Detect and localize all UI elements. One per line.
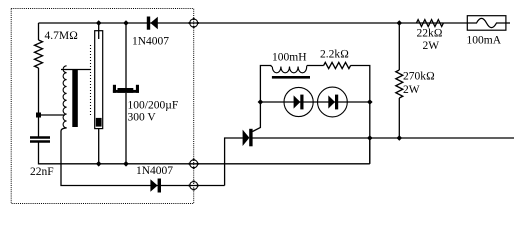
thyristor SCR anode-cathode — [243, 129, 253, 147]
node tube-lead rail — [96, 161, 102, 167]
svg-text:22kΩ: 22kΩ — [417, 27, 443, 39]
fuse F1 element — [467, 18, 506, 27]
svg-text:100mH: 100mH — [272, 52, 307, 64]
diode D1 1N4007 top — [147, 17, 158, 30]
inductor L1 100mH — [271, 66, 306, 73]
wire 270k bottom riser — [398, 98, 400, 138]
node cap-lead rail — [123, 161, 129, 167]
wire top-right output stub — [506, 22, 510, 24]
svg-text:22nF: 22nF — [30, 166, 54, 178]
wire diac row — [260, 101, 369, 103]
wire transformer tap — [39, 114, 65, 116]
thyristor SCR gate lead — [253, 102, 261, 132]
terminal bottom — [189, 180, 199, 190]
node 270k top — [397, 20, 403, 26]
node 270k bottom — [397, 135, 403, 141]
flash tube bottom electrode — [96, 118, 102, 127]
svg-text:300 V: 300 V — [128, 112, 157, 124]
flash tube top electrode lead — [98, 23, 100, 39]
resistor R1 4.7MOhm — [35, 40, 43, 68]
wire trigger feed — [61, 69, 91, 71]
node junction square — [36, 113, 41, 118]
wire coil bottom lead — [61, 128, 225, 186]
node output riser — [367, 135, 373, 141]
resistor R4 22kOhm — [416, 20, 443, 27]
enclosure dashed box — [11, 9, 194, 204]
wire SCR output — [253, 137, 515, 139]
capacitor C1 22nF — [30, 136, 50, 138]
wire electrolytic bottom lead — [125, 93, 127, 164]
wire 4.7M bottom lead — [38, 68, 40, 137]
diac diode 2 — [328, 95, 338, 110]
svg-text:4.7MΩ: 4.7MΩ — [45, 30, 79, 42]
diode D2 1N4007 bottom — [150, 179, 161, 193]
inductor L1 core bar — [272, 76, 310, 79]
wire inner network left/top — [260, 66, 271, 103]
svg-text:270kΩ: 270kΩ — [403, 71, 435, 83]
terminal mid — [189, 159, 199, 169]
capacitor C2 100/200uF electrolytic — [113, 85, 139, 93]
wire electrolytic top lead — [125, 23, 127, 88]
resistor R3 270kOhm — [396, 70, 403, 98]
wire between L1 and R2 — [307, 65, 324, 67]
svg-text:100/200µF: 100/200µF — [128, 100, 179, 112]
flash tube trigger electrode (dotted) — [90, 45, 92, 117]
svg-text:2W: 2W — [423, 40, 440, 52]
svg-text:1N4007: 1N4007 — [132, 35, 169, 47]
transformer T1 primary coil — [63, 66, 67, 128]
svg-text:2W: 2W — [403, 84, 420, 96]
svg-text:100mA: 100mA — [467, 35, 502, 47]
node tube-lead top — [96, 20, 102, 26]
wire top rail — [39, 22, 468, 24]
wire 4.7M top lead — [38, 23, 40, 40]
wire rail riser — [369, 138, 371, 164]
transformer T1 core bar — [72, 69, 78, 127]
svg-text:2.2kΩ: 2.2kΩ — [320, 49, 349, 61]
node gate net — [258, 99, 264, 105]
node cap-lead top — [123, 20, 129, 26]
terminal top — [189, 18, 199, 28]
svg-text:1N4007: 1N4007 — [136, 165, 173, 177]
fuse F1 body — [467, 16, 506, 31]
diac circle 2 — [318, 87, 348, 117]
wire 22nF bottom lead to rail — [39, 143, 370, 164]
diac circle 1 — [284, 87, 313, 116]
wire inner network right — [351, 66, 370, 164]
flash tube envelope — [95, 31, 103, 129]
wire tube bottom lead — [98, 129, 100, 164]
resistor R2 2.2kOhm — [324, 62, 351, 68]
diac diode 1 — [294, 95, 304, 110]
wire riser anode — [225, 138, 243, 186]
wire 270k top riser — [398, 23, 400, 70]
node diac right — [367, 99, 373, 105]
